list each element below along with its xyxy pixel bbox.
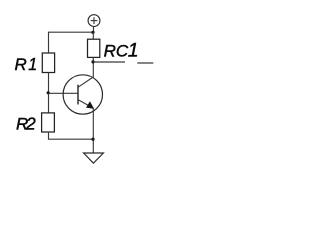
wire top horizontal: [49, 31, 94, 33]
label R1: [15, 54, 38, 74]
svg-text:2: 2: [25, 114, 36, 134]
resistor RC1: [88, 39, 100, 57]
label RC1: [104, 40, 139, 62]
wire emitter vertical: [92, 108, 94, 153]
resistor R2: [42, 113, 55, 132]
node junction base: [47, 91, 50, 94]
wire base horizontal: [49, 92, 79, 94]
wire collector vertical: [92, 57, 94, 77]
ground: [84, 153, 104, 163]
wire left rail middle: [48, 73, 50, 114]
transistor Q1: [63, 75, 102, 114]
power supply + terminal: [88, 15, 100, 27]
svg-text:1: 1: [28, 54, 37, 74]
svg-text:RC: RC: [104, 41, 129, 60]
resistor R1: [42, 53, 54, 73]
node junction collector: [91, 60, 94, 63]
wire output horizontal: [93, 61, 125, 63]
node junction emitter: [91, 138, 94, 141]
wire left rail upper: [48, 32, 50, 53]
wire output dash segment: [137, 62, 153, 64]
label R2: [16, 114, 36, 134]
node junction top: [91, 31, 94, 34]
svg-text:R: R: [15, 55, 27, 74]
wire power stub: [93, 27, 95, 33]
wire RC1 top stub: [92, 32, 94, 39]
wire left rail bottom: [49, 132, 94, 139]
svg-text:1: 1: [128, 40, 139, 62]
